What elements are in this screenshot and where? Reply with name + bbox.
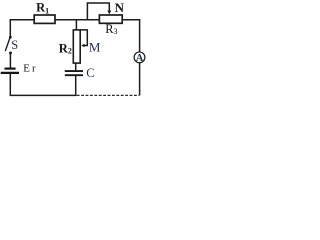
svg-text:A: A: [136, 53, 144, 64]
svg-text:N: N: [115, 0, 125, 15]
svg-text:E: E: [23, 62, 30, 74]
svg-text:C: C: [86, 66, 94, 80]
svg-text:S: S: [11, 38, 18, 52]
svg-text:r: r: [32, 62, 36, 74]
svg-text:M: M: [89, 40, 101, 55]
